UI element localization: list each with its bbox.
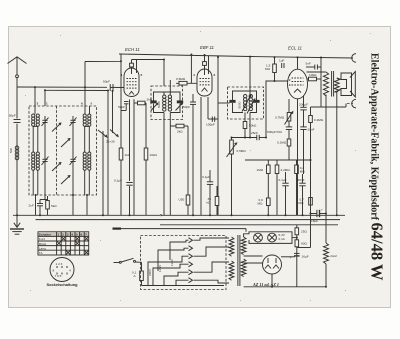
switch wave d: [61, 176, 70, 184]
svg-text:Feld: Feld: [331, 254, 337, 258]
resistor 0,1M fb: [277, 139, 291, 160]
potentiometer 0,7M feedback: [275, 99, 293, 127]
band switch coil box: [29, 106, 97, 195]
svg-text:ECH 11: ECH 11: [125, 47, 140, 52]
resistor 0,7M g: [299, 198, 313, 206]
svg-text:6: 6: [141, 73, 143, 77]
terminal bottom: [352, 99, 356, 108]
svg-text:8: 8: [91, 102, 93, 106]
svg-text:4: 4: [69, 269, 71, 273]
socket diagram: [47, 258, 79, 287]
antenna: [8, 57, 27, 216]
svg-text:MΩ: MΩ: [258, 202, 264, 206]
switch oscillator b: [110, 130, 118, 137]
svg-text:50nF: 50nF: [298, 178, 305, 182]
table band switch: [38, 232, 89, 255]
resistor 2k osc anode: [134, 98, 153, 105]
capacitor 25nF coupling: [232, 131, 267, 140]
svg-text:Mittel: Mittel: [39, 242, 47, 246]
svg-text:25nF: 25nF: [251, 131, 258, 135]
wire terminal vertical: [320, 58, 322, 108]
wire IF2 diode link: [218, 102, 230, 104]
svg-text:MΩ: MΩ: [299, 201, 305, 205]
trimmer IF2: [242, 96, 251, 112]
capacitor IF1 b: [177, 100, 183, 103]
wire osc cathode: [102, 131, 104, 215]
svg-text:ECL 11: ECL 11: [288, 46, 303, 51]
svg-text:Lang: Lang: [39, 246, 46, 250]
capacitor 1uF: [279, 59, 285, 69]
capacitor 500pF/700: [267, 127, 292, 139]
wire oscillator anode drop: [120, 61, 122, 148]
svg-text:4: 4: [121, 73, 123, 77]
wire speaker return: [311, 106, 347, 108]
wire antenna bus: [17, 86, 107, 88]
wire ground bus 2: [36, 219, 341, 221]
svg-text:4: 4: [193, 73, 195, 77]
resistor 0,5M screen feed: [176, 55, 197, 86]
switch oscillator a: [98, 130, 107, 137]
capacitor 200uF cathode: [299, 96, 308, 127]
wire oscillator grid line: [85, 54, 121, 61]
wire B+ vertical: [325, 95, 327, 244]
switch wave a: [52, 124, 61, 132]
svg-text:2: 2: [289, 78, 291, 82]
wire B return: [244, 286, 326, 288]
wire coil box feeds: [34, 87, 36, 114]
capacitor 25nF cathode: [300, 127, 314, 174]
tube AZ11 rectifier: [252, 255, 282, 287]
svg-text:+: +: [290, 256, 292, 260]
coil osc MW: [83, 114, 86, 117]
power transformer box: [141, 236, 227, 290]
svg-text:2kΩ: 2kΩ: [177, 130, 183, 134]
svg-text:Schalter: Schalter: [39, 233, 52, 237]
svg-text:0,2MΩ: 0,2MΩ: [314, 118, 324, 122]
svg-text:0,5MΩ: 0,5MΩ: [176, 77, 186, 81]
svg-text:3: 3: [67, 232, 69, 236]
svg-text:MΩ: MΩ: [265, 67, 271, 71]
svg-text:200µF: 200µF: [299, 102, 308, 106]
selector contacts: [189, 238, 193, 243]
resistor 2k screen: [170, 124, 188, 133]
svg-text:6: 6: [214, 73, 216, 77]
resistor 5k: [40, 196, 57, 215]
capacitor antenna series: [9, 114, 21, 123]
capacitor 16uF electrolytic: [311, 208, 327, 223]
wire avc rail: [245, 159, 311, 161]
wire IF1 drops: [163, 92, 165, 95]
capacitor IF2 a: [229, 100, 235, 103]
capacitor 5nF anode: [306, 62, 322, 70]
coil ant MW: [32, 114, 35, 117]
resistor 2,2M avc: [275, 160, 290, 215]
wire box divider: [56, 106, 58, 195]
resistor 1,5M grid: [265, 57, 276, 81]
coil osc LW: [88, 114, 91, 117]
coil field Feld: [324, 243, 337, 287]
svg-text:EBF 11: EBF 11: [200, 45, 215, 50]
terminal top: [352, 54, 356, 63]
coil IF1 a: [163, 95, 166, 98]
svg-text:25÷30: 25÷30: [106, 140, 115, 144]
svg-text:0,1A: 0,1A: [279, 237, 286, 241]
svg-text:8: 8: [53, 269, 55, 273]
wire coil box exits: [35, 195, 37, 215]
svg-text:6: 6: [81, 102, 83, 106]
coil antenna: [15, 146, 19, 150]
coil ant LW: [36, 114, 39, 117]
voltage selector: [142, 238, 230, 286]
svg-text:Kurz: Kurz: [39, 237, 46, 241]
svg-text:kΩ: kΩ: [207, 201, 212, 205]
IF transformer 2 box: [228, 87, 264, 119]
title vertical text: [368, 53, 387, 281]
svg-text:60Ω: 60Ω: [301, 242, 307, 246]
svg-text:25nF: 25nF: [308, 128, 315, 132]
wire mains feed: [113, 228, 122, 230]
resistor 0,2M screen: [309, 107, 324, 160]
wire anode to output transformer: [307, 71, 327, 73]
svg-text:1MΩ: 1MΩ: [257, 168, 264, 172]
svg-text:3: 3: [37, 102, 39, 106]
wire ECL grid: [266, 81, 288, 138]
svg-text:500pF/700: 500pF/700: [267, 130, 282, 134]
svg-text:0,5MΩ: 0,5MΩ: [237, 149, 247, 153]
svg-text:5000: 5000: [238, 101, 242, 108]
svg-text:5: 5: [76, 232, 78, 236]
svg-text:0,1µF: 0,1µF: [114, 179, 122, 183]
switch mains: [114, 258, 142, 263]
svg-text:0,7MΩ: 0,7MΩ: [275, 116, 285, 120]
svg-text:0,1MΩ: 0,1MΩ: [277, 141, 287, 145]
lamp loop: [244, 229, 292, 244]
svg-text:1µF: 1µF: [279, 59, 285, 63]
capacitor IF1 a: [150, 100, 156, 103]
trimmer sw a: [42, 155, 49, 166]
capacitor 16uF b: [290, 253, 309, 259]
resistor 25 ps: [295, 225, 307, 287]
svg-text:3: 3: [289, 83, 291, 87]
ground symbol main: [10, 215, 24, 234]
resistor 0,2M avc: [295, 160, 306, 215]
capacitor 0,1uF cathode: [114, 179, 133, 186]
svg-text:+: +: [321, 208, 323, 212]
svg-text:16µF: 16µF: [302, 255, 309, 259]
resistor 100: [307, 73, 322, 81]
wire rectifier heaters: [244, 255, 263, 257]
capacitor 50nF: [298, 174, 306, 215]
wire ground bus 1: [13, 214, 345, 216]
trimmer ant: [42, 116, 49, 127]
coil ant SW2: [36, 152, 39, 155]
resistor 1k osc: [119, 148, 131, 160]
speaker: [337, 72, 356, 98]
wire ECH11 pins down: [129, 100, 131, 182]
svg-text:25Ω: 25Ω: [301, 230, 307, 234]
capacitor 50pF grid: [103, 80, 113, 92]
capacitor 100pF: [206, 57, 218, 215]
trimmer sw b: [70, 155, 77, 166]
resistor 50k if2: [243, 122, 247, 129]
svg-text:6: 6: [81, 232, 83, 236]
svg-text:1: 1: [58, 232, 60, 236]
capacitor 2nF: [29, 200, 44, 216]
svg-text:AZ 11 od. AZ 1: AZ 11 od. AZ 1: [252, 282, 279, 287]
svg-text:0,1µF: 0,1µF: [202, 175, 210, 179]
svg-text:220V: 220V: [148, 268, 152, 276]
tube ECL11: [288, 46, 308, 99]
capacitor IF2 b: [253, 100, 259, 103]
wire grid cap ECH11: [132, 60, 165, 87]
svg-text:7 6 5: 7 6 5: [55, 274, 62, 278]
wire top HT bus: [119, 54, 353, 58]
svg-text:U50: U50: [179, 198, 185, 202]
svg-text:10kΩ: 10kΩ: [150, 153, 158, 157]
wire heater bus: [160, 224, 338, 226]
wire grid line drop: [112, 91, 114, 133]
tube ECH11: [121, 47, 143, 97]
coil IF2 b: [249, 95, 252, 98]
switch wave c: [52, 163, 61, 171]
tube EBF11: [193, 45, 216, 96]
switch wave b: [61, 139, 70, 147]
wire cathode ground: [297, 99, 299, 215]
lamp scale 2: [268, 233, 277, 242]
coil IF2 a: [244, 95, 247, 98]
trimmer IF1 b: [176, 104, 183, 111]
svg-text:50pF: 50pF: [103, 80, 110, 84]
svg-text:Sockelschaltung: Sockelschaltung: [47, 282, 79, 287]
svg-text:5kΩ: 5kΩ: [51, 204, 57, 208]
capacitor 0,1uF a: [202, 170, 213, 215]
svg-text:4: 4: [71, 232, 73, 236]
capacitor 50pF diode: [183, 94, 196, 215]
trimmer osc: [70, 116, 77, 127]
svg-text:MΩ: MΩ: [300, 170, 306, 174]
IF transformer 1 box: [151, 86, 183, 120]
resistor 50k drop: [179, 126, 190, 215]
wire hum link: [310, 160, 312, 248]
resistor 1M avc: [257, 160, 271, 215]
transformer output: [323, 71, 339, 97]
svg-text:50pF: 50pF: [183, 105, 190, 109]
lamp scale 1: [254, 233, 263, 242]
wires to transformer: [194, 238, 230, 240]
svg-text:7: 7: [85, 232, 87, 236]
svg-text:100pF: 100pF: [206, 123, 215, 127]
resistor 10k: [144, 103, 157, 215]
coil osc SW: [83, 152, 86, 155]
wire AVC return line: [44, 90, 46, 106]
svg-text:1: 1: [46, 102, 48, 106]
resistor 60 ps: [295, 240, 307, 247]
junction dots: [34, 86, 36, 88]
svg-text:50pF: 50pF: [9, 114, 16, 118]
resistor 0,6M det: [258, 198, 271, 206]
scan noise specks: [25, 31, 371, 301]
svg-text:100Ω: 100Ω: [309, 73, 317, 77]
wire IF2 drops: [249, 57, 251, 95]
svg-text:2: 2: [62, 232, 64, 236]
svg-text:5nF: 5nF: [306, 62, 311, 66]
svg-text:500: 500: [9, 148, 13, 153]
svg-text:2nF: 2nF: [29, 204, 34, 208]
svg-text:50pF: 50pF: [118, 105, 125, 109]
coil IF1 b: [168, 95, 171, 98]
wire EBF11 pins: [200, 97, 202, 215]
transformer mains: [229, 235, 246, 286]
wire IF2 loop: [233, 91, 257, 100]
svg-text:0,1µF: 0,1µF: [279, 178, 287, 182]
svg-text:50kΩ: 50kΩ: [249, 124, 257, 128]
capacitor 50pF triode grid: [118, 102, 129, 111]
coil ant SW: [32, 152, 35, 155]
svg-text:1: 1: [289, 73, 291, 77]
coil osc SW2: [88, 152, 91, 155]
capacitor 0,1uF b: [279, 172, 289, 215]
fuse 0,1A: [132, 262, 143, 285]
wire lamp link: [292, 237, 297, 239]
wire secondary down: [336, 92, 338, 215]
wire IF1 loop: [154, 92, 181, 101]
potentiometer volume 0,5M: [227, 138, 247, 216]
svg-text:1 2 3: 1 2 3: [56, 262, 63, 266]
svg-text:2,2MΩ: 2,2MΩ: [281, 168, 291, 172]
trimmer IF1 a: [151, 104, 158, 111]
resistor 30k: [207, 186, 219, 215]
